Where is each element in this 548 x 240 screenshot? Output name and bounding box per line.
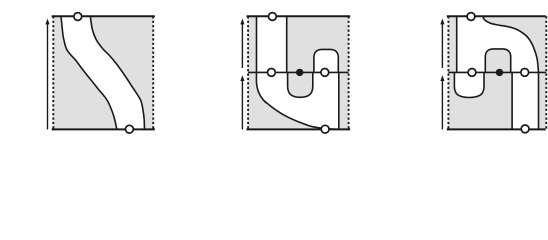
panel 2 top orientation arrow bbox=[241, 23, 243, 68]
panel 2 left dashed edge bbox=[247, 16, 249, 129]
panel 2 seam: right strip line upper half bbox=[286, 16, 288, 72]
panel 3 white upper region fill bbox=[457, 16, 539, 72]
panel 3 seam: strip right boundary lower half bbox=[538, 72, 540, 129]
panel 2 middle marked point right (open) bbox=[321, 69, 329, 77]
panel 2 middle cut line bbox=[248, 71, 349, 73]
panel 3 seam: strip left boundary lower half bbox=[511, 72, 513, 129]
panel 3 right dashed edge bbox=[545, 16, 547, 129]
panel 2 gray square (cobordism sheet) bbox=[248, 16, 349, 129]
panel 3 top orientation arrow bbox=[441, 23, 443, 68]
panel 2 white lower region fill bbox=[256, 72, 339, 129]
panel 3 left dashed edge bbox=[447, 16, 449, 129]
panel 3 top edge bbox=[447, 15, 546, 17]
panel 1 gray square (cobordism sheet) bbox=[53, 16, 153, 129]
panel 3 gray finger above middle line bbox=[485, 49, 510, 73]
panel 3 bottom orientation arrow bbox=[441, 80, 443, 130]
panel 1 white S-band (tube region) fill bbox=[61, 16, 145, 129]
panel 2 bottom orientation arrow bbox=[241, 80, 243, 130]
panel 2 middle marked point center (filled) bbox=[296, 69, 303, 76]
panel 1 orientation arrow bbox=[47, 23, 49, 129]
panel 2 bottom marked point (open) bbox=[321, 125, 329, 133]
panel 2 bottom edge bbox=[247, 128, 351, 130]
panel 3 gray square (cobordism sheet) bbox=[448, 16, 546, 129]
panel 3 top marked point (open) bbox=[467, 13, 475, 21]
panel 3 middle cut line bbox=[448, 71, 546, 73]
panel 3 bottom edge bbox=[447, 128, 546, 130]
panel 2 top marked point (open) bbox=[269, 13, 277, 21]
panel 3 bottom marked point (open) bbox=[521, 125, 529, 133]
panel 2 white arch region above middle line bbox=[314, 49, 338, 72]
panel 2 white vertical strip upper half bbox=[257, 16, 287, 72]
panel 3 white vertical strip lower half bbox=[512, 72, 538, 129]
panel 1 top edge bbox=[52, 15, 155, 17]
panel 1 top marked point (open) bbox=[74, 13, 82, 21]
panel 1 bottom edge bbox=[52, 128, 155, 130]
panel 3 seam: left gray strip boundary line bbox=[456, 16, 458, 72]
panel 1 bottom marked point (open) bbox=[125, 125, 133, 133]
panel 2 seam: left strip line flowing into sweep curve bbox=[256, 16, 339, 129]
panel 1 band left seam curve bbox=[61, 16, 117, 129]
panel 2 right dashed edge bbox=[348, 16, 350, 129]
panel 2 middle marked point left (open) bbox=[268, 69, 276, 77]
panel 1 band right seam curve bbox=[90, 16, 144, 129]
panel 3 middle marked point center (filled) bbox=[496, 69, 503, 76]
panel 2 seam: arch right leg down to bottom edge bbox=[338, 72, 340, 129]
panel 3 white U region below middle line bbox=[454, 72, 484, 97]
panel 3 middle marked point right (open) bbox=[521, 69, 529, 77]
panel 2 top edge bbox=[247, 15, 351, 17]
panel 1 left dashed edge bbox=[52, 16, 54, 129]
panel 2 gray finger below middle line bbox=[288, 72, 313, 97]
panel 3 middle marked point left (open) bbox=[468, 69, 476, 77]
panel 3 seam: sweep curve top edge to middle line bbox=[483, 16, 539, 72]
panel 1 right dashed edge bbox=[152, 16, 154, 129]
